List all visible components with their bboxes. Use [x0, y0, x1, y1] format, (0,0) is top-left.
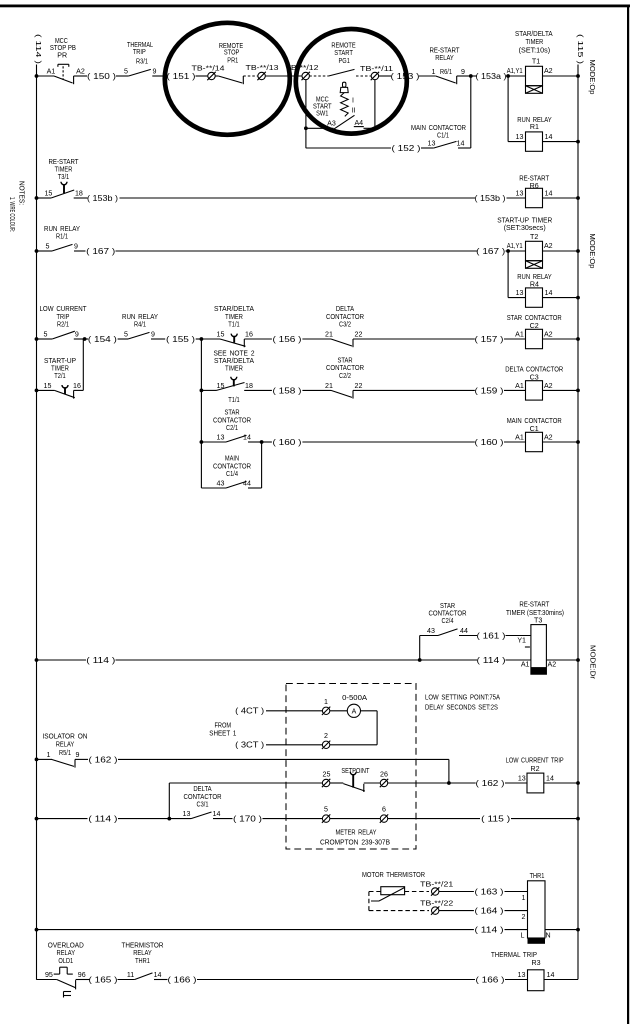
svg-text:13: 13	[516, 133, 524, 141]
svg-text:TB-**/22: TB-**/22	[420, 899, 453, 907]
svg-text:METER RELAY: METER RELAY	[336, 828, 377, 836]
svg-text:RE-START: RE-START	[519, 600, 550, 608]
svg-text:TB-**/11: TB-**/11	[360, 65, 393, 73]
svg-text:95: 95	[45, 971, 53, 979]
svg-text:STOP: STOP	[224, 48, 240, 56]
svg-text:1: 1	[47, 751, 51, 759]
svg-text:( 155 ): ( 155 )	[166, 335, 195, 344]
svg-text:16: 16	[245, 331, 253, 339]
svg-text:R1/1: R1/1	[56, 232, 68, 240]
svg-text:CONTACTOR: CONTACTOR	[326, 364, 364, 372]
svg-text:2: 2	[522, 913, 526, 921]
svg-text:A: A	[352, 708, 357, 715]
svg-text:( 167 ): ( 167 )	[476, 247, 505, 256]
svg-text:9: 9	[153, 68, 157, 76]
svg-text:C3/2: C3/2	[339, 321, 351, 329]
svg-text:A2: A2	[544, 242, 553, 250]
svg-text:44: 44	[460, 627, 468, 635]
svg-text:( 150 ): ( 150 )	[87, 72, 116, 81]
svg-text:T3/1: T3/1	[58, 173, 69, 181]
svg-text:T2/1: T2/1	[54, 372, 65, 380]
svg-text:1: 1	[522, 894, 526, 902]
svg-text:T1: T1	[532, 58, 540, 66]
svg-text:R2: R2	[530, 765, 539, 773]
svg-text:DELTA CONTACTOR: DELTA CONTACTOR	[505, 366, 563, 374]
svg-text:STAR/DELTA: STAR/DELTA	[515, 30, 553, 38]
svg-text:14: 14	[457, 140, 465, 148]
svg-text:21: 21	[325, 382, 333, 390]
svg-text:( 166 ): ( 166 )	[476, 975, 505, 984]
svg-text:ISOLATOR ON: ISOLATOR ON	[43, 733, 88, 741]
svg-text:DELAY SECONDS SET:2S: DELAY SECONDS SET:2S	[425, 703, 498, 711]
svg-text:9: 9	[76, 751, 80, 759]
svg-text:14: 14	[243, 434, 251, 442]
svg-text:LOW SETTING POINT:75A: LOW SETTING POINT:75A	[425, 694, 500, 702]
svg-text:5: 5	[46, 243, 50, 251]
svg-text:( 114 ): ( 114 )	[34, 34, 43, 65]
svg-text:C3/1: C3/1	[197, 801, 209, 809]
svg-text:T1/1: T1/1	[228, 396, 239, 404]
svg-text:C2/2: C2/2	[339, 372, 351, 380]
svg-text:A2: A2	[76, 68, 85, 76]
svg-text:FROM: FROM	[214, 722, 231, 730]
svg-text:T3: T3	[534, 616, 542, 624]
svg-text:MODE:Dr: MODE:Dr	[589, 645, 598, 680]
svg-text:THERMAL TRIP: THERMAL TRIP	[491, 951, 537, 959]
svg-text:11: 11	[127, 971, 134, 979]
svg-text:18: 18	[245, 382, 253, 390]
svg-text:C1/1: C1/1	[437, 132, 449, 140]
svg-text:TB-**/21: TB-**/21	[420, 880, 453, 888]
svg-text:( 154 ): ( 154 )	[88, 335, 117, 344]
svg-text:CONTACTOR: CONTACTOR	[213, 416, 251, 424]
svg-text:RELAY: RELAY	[56, 740, 75, 748]
svg-text:MOTOR THERMISTOR: MOTOR THERMISTOR	[362, 871, 425, 879]
svg-text:14: 14	[545, 289, 553, 297]
svg-text:14: 14	[545, 133, 553, 141]
svg-text:TB-**/13: TB-**/13	[246, 64, 279, 72]
svg-text:A2: A2	[544, 67, 553, 75]
svg-text:CONTACTOR: CONTACTOR	[326, 313, 364, 321]
svg-text:1. WIRE COLOUR:: 1. WIRE COLOUR:	[8, 197, 17, 232]
svg-text:( 3CT ): ( 3CT )	[235, 741, 264, 750]
svg-text:THR1: THR1	[135, 957, 150, 965]
svg-text:A1: A1	[47, 68, 56, 76]
svg-text:5: 5	[324, 806, 328, 814]
svg-text:MODE:Op: MODE:Op	[588, 234, 597, 269]
svg-text:R4/1: R4/1	[134, 321, 146, 329]
svg-text:( 162 ): ( 162 )	[476, 779, 505, 788]
svg-text:RELAY: RELAY	[133, 949, 152, 957]
svg-text:( 164 ): ( 164 )	[475, 907, 504, 916]
svg-text:14: 14	[545, 190, 553, 198]
svg-text:R3/1: R3/1	[136, 58, 148, 66]
svg-text:5: 5	[124, 68, 128, 76]
svg-text:( 162 ): ( 162 )	[89, 755, 118, 764]
svg-text:15: 15	[217, 382, 225, 390]
svg-text:( 161 ): ( 161 )	[477, 631, 506, 640]
svg-text:16: 16	[73, 382, 81, 390]
svg-text:MAIN CONTACTOR: MAIN CONTACTOR	[411, 124, 466, 132]
svg-text:9: 9	[75, 331, 79, 339]
svg-text:13: 13	[518, 971, 526, 979]
svg-text:( 157 ): ( 157 )	[475, 335, 504, 344]
svg-text:22: 22	[355, 331, 363, 339]
svg-text:( 158 ): ( 158 )	[273, 386, 302, 395]
svg-text:( 151 ): ( 151 )	[167, 72, 196, 81]
svg-text:( 4CT ): ( 4CT )	[235, 707, 264, 716]
svg-text:R1: R1	[530, 123, 539, 131]
svg-text:TIMER: TIMER	[225, 313, 243, 321]
svg-text:22: 22	[355, 382, 363, 390]
svg-text:T2: T2	[530, 233, 538, 241]
svg-text:1: 1	[432, 68, 436, 76]
svg-text:14: 14	[546, 775, 554, 783]
svg-text:13: 13	[518, 775, 526, 783]
svg-text:( 114 ): ( 114 )	[86, 656, 115, 665]
svg-text:( 114 ): ( 114 )	[475, 926, 504, 935]
svg-text:MODE:Op: MODE:Op	[588, 60, 597, 95]
svg-text:13: 13	[183, 810, 191, 818]
svg-text:T1/1: T1/1	[228, 321, 239, 329]
svg-text:13: 13	[217, 434, 225, 442]
svg-text:A1: A1	[515, 331, 524, 339]
svg-text:13: 13	[516, 289, 524, 297]
svg-text:R4: R4	[530, 281, 539, 289]
svg-text:25: 25	[323, 771, 331, 779]
svg-text:9: 9	[74, 243, 78, 251]
svg-text:C1/4: C1/4	[226, 470, 238, 478]
svg-text:LOW CURRENT TRIP: LOW CURRENT TRIP	[506, 757, 564, 765]
svg-text:A4: A4	[354, 119, 363, 127]
svg-text:A1,Y1: A1,Y1	[507, 242, 523, 250]
svg-text:( 153b ): ( 153b )	[87, 194, 118, 203]
svg-text:A1: A1	[521, 660, 530, 668]
svg-text:A3: A3	[327, 119, 336, 127]
svg-text:C2/4: C2/4	[442, 617, 454, 625]
svg-text:PR1: PR1	[227, 57, 238, 65]
svg-text:6: 6	[382, 806, 386, 814]
svg-text:TIMER: TIMER	[526, 38, 544, 46]
svg-text:C2/1: C2/1	[226, 424, 238, 432]
svg-text:13: 13	[428, 140, 436, 148]
svg-text:SHEET 1: SHEET 1	[209, 729, 236, 737]
svg-text:14: 14	[154, 971, 162, 979]
svg-text:A1: A1	[515, 434, 524, 442]
svg-text:TB-**/14: TB-**/14	[192, 65, 225, 73]
svg-text:OLD1: OLD1	[58, 957, 73, 965]
svg-text:( 115 ): ( 115 )	[576, 34, 585, 65]
svg-text:5: 5	[124, 331, 128, 339]
svg-text:STAR CONTACTOR: STAR CONTACTOR	[507, 314, 562, 322]
svg-text:CONTACTOR: CONTACTOR	[213, 462, 251, 470]
svg-text:Y1: Y1	[517, 637, 526, 645]
svg-text:2: 2	[324, 732, 328, 740]
svg-text:18: 18	[75, 190, 83, 198]
svg-text:L: L	[521, 931, 525, 939]
svg-text:1: 1	[324, 698, 328, 706]
svg-text:( 160 ): ( 160 )	[273, 438, 302, 447]
svg-text:SW1: SW1	[316, 110, 328, 118]
svg-text:0-500A: 0-500A	[342, 694, 367, 702]
svg-text:( 159 ): ( 159 )	[475, 386, 504, 395]
svg-text:A2: A2	[544, 331, 553, 339]
svg-text:( 156 ): ( 156 )	[273, 335, 302, 344]
svg-text:( 153a ): ( 153a )	[476, 72, 507, 81]
svg-text:44: 44	[243, 480, 251, 488]
svg-text:THR1: THR1	[530, 872, 545, 880]
svg-text:( 163 ): ( 163 )	[475, 887, 504, 896]
svg-text:9: 9	[151, 331, 155, 339]
svg-text:R2/1: R2/1	[57, 321, 69, 329]
svg-text:R6/1: R6/1	[440, 68, 452, 76]
svg-text:( 115 ): ( 115 )	[481, 815, 510, 824]
svg-text:A1: A1	[515, 382, 524, 390]
svg-text:A2: A2	[548, 660, 557, 668]
svg-text:CROMPTON 239-307B: CROMPTON 239-307B	[320, 839, 390, 847]
svg-text:( 114 ): ( 114 )	[88, 815, 117, 824]
svg-text:START: START	[334, 49, 353, 57]
svg-text:( 170 ): ( 170 )	[233, 815, 262, 824]
svg-text:43: 43	[427, 627, 435, 635]
svg-text:(SET:30secs): (SET:30secs)	[504, 224, 546, 232]
svg-text:5: 5	[44, 331, 48, 339]
svg-text:A2: A2	[544, 382, 553, 390]
svg-text:PR: PR	[57, 51, 67, 59]
svg-text:( 166 ): ( 166 )	[168, 975, 197, 984]
svg-text:II: II	[352, 106, 356, 114]
svg-text:TRIP: TRIP	[57, 313, 70, 321]
svg-text:TRIP: TRIP	[133, 48, 146, 56]
svg-text:RELAY: RELAY	[57, 949, 76, 957]
svg-text:13: 13	[516, 190, 524, 198]
svg-text:RELAY: RELAY	[435, 54, 454, 62]
svg-text:9: 9	[461, 68, 465, 76]
svg-text:43: 43	[217, 480, 225, 488]
svg-text:R5/1: R5/1	[59, 749, 71, 757]
svg-text:RUN RELAY: RUN RELAY	[122, 313, 158, 321]
svg-text:14: 14	[213, 810, 221, 818]
svg-text:PG1: PG1	[339, 57, 350, 65]
svg-text:( 152 ): ( 152 )	[392, 144, 421, 153]
svg-text:CONTACTOR: CONTACTOR	[429, 609, 467, 617]
svg-text:( 114 ): ( 114 )	[477, 656, 506, 665]
svg-text:15: 15	[44, 382, 52, 390]
svg-text:TIMER: TIMER	[51, 364, 69, 372]
svg-text:TIMER: TIMER	[225, 365, 243, 373]
svg-text:A2: A2	[544, 434, 553, 442]
svg-text:CONTACTOR: CONTACTOR	[184, 793, 222, 801]
svg-text:MAIN CONTACTOR: MAIN CONTACTOR	[507, 417, 562, 425]
svg-text:96: 96	[78, 971, 86, 979]
svg-text:( 160 ): ( 160 )	[475, 438, 504, 447]
svg-text:I: I	[352, 96, 354, 104]
svg-text:A1,Y1: A1,Y1	[507, 67, 523, 75]
svg-text:15: 15	[44, 190, 52, 198]
svg-text:R3: R3	[531, 959, 540, 967]
svg-text:( 167 ): ( 167 )	[86, 247, 115, 256]
svg-text:N: N	[545, 931, 550, 939]
svg-text:(SET:10s): (SET:10s)	[519, 46, 551, 54]
svg-text:( 165 ): ( 165 )	[89, 975, 118, 984]
svg-text:26: 26	[380, 771, 388, 779]
svg-text:21: 21	[325, 331, 333, 339]
svg-text:( 153b ): ( 153b )	[475, 194, 506, 203]
svg-text:NOTES:: NOTES:	[18, 181, 27, 205]
svg-text:14: 14	[547, 971, 555, 979]
svg-text:15: 15	[217, 331, 225, 339]
